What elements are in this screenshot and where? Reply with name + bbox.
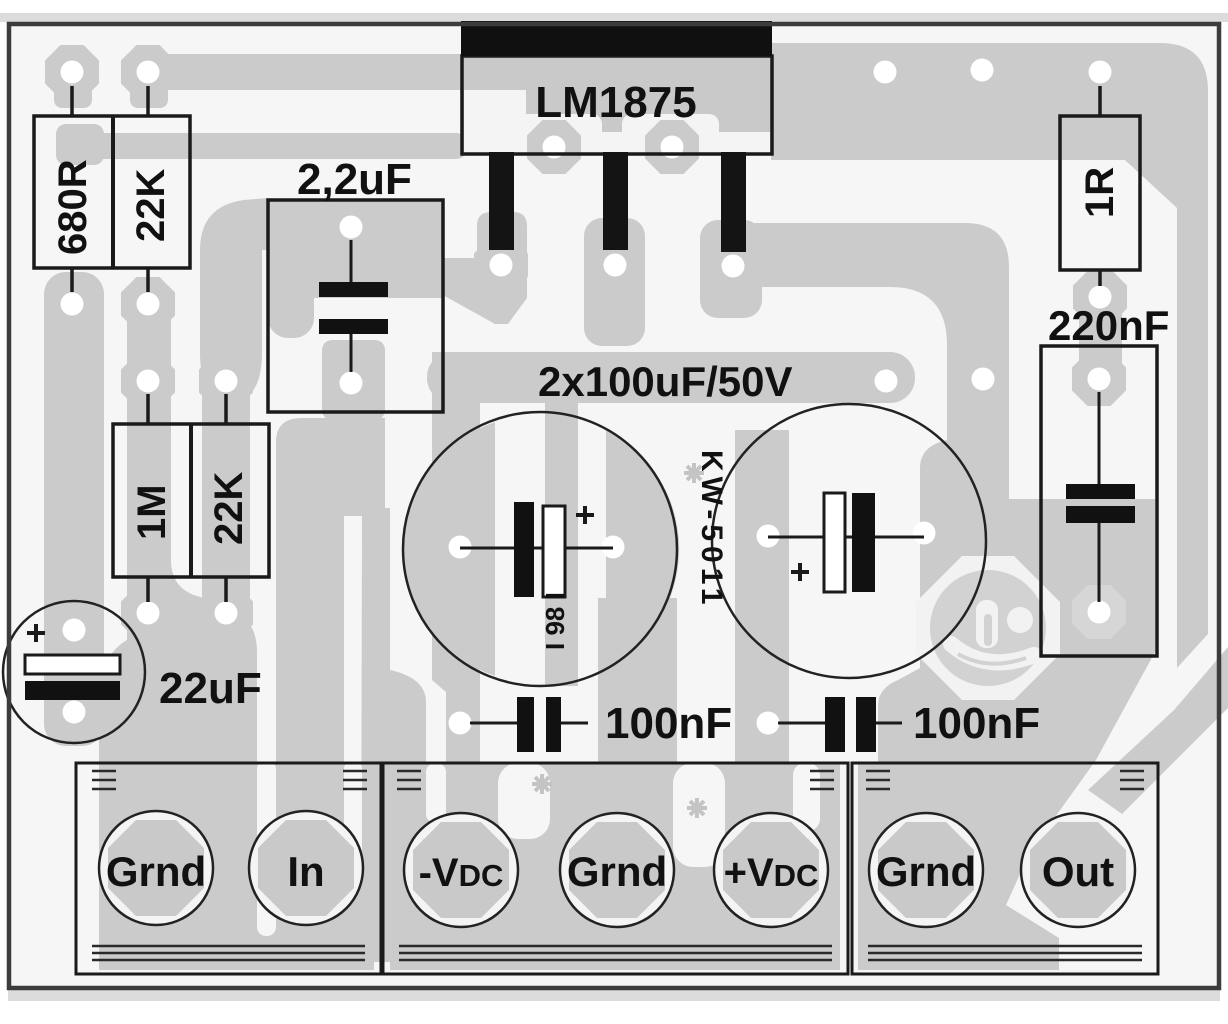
hatch block1 left (92, 771, 116, 789)
wire: slot left of -VDC in block2 (426, 763, 446, 823)
wire: gnd-mid bridge below slot2 (598, 598, 677, 764)
wire: trace C into block2 left corner (361, 508, 426, 962)
wire: +VDC strip (735, 430, 789, 942)
op-amp U1 body fill (462, 56, 772, 154)
wire: band2 left end blob (56, 124, 104, 165)
wire: block2 interior copper (390, 763, 840, 970)
wire: left vertical trace 680R bottom to 22uF (44, 272, 104, 746)
wire: finger of IC pin3 (584, 218, 645, 346)
terminal In (249, 811, 363, 925)
capacitor 100nF-1 leads (470, 722, 517, 725)
svg-text:220nF: 220nF (1048, 302, 1169, 349)
wire: diagonal band to Out (1088, 647, 1228, 814)
capacitor 2.2uF plates (319, 282, 388, 297)
pad cap B minus (913, 522, 936, 545)
op-amp U1 leg pin5 (721, 152, 746, 252)
pad cap A minus (449, 536, 472, 559)
svg-text:100nF: 100nF (913, 699, 1040, 748)
terminal -VDC (404, 813, 518, 927)
hatch block2 right (810, 771, 834, 789)
svg-text:Grnd: Grnd (106, 848, 206, 895)
capacitor 100nF-2 leads (778, 722, 825, 725)
watermark star 2 (532, 774, 552, 794)
capacitor C 220nF box (1041, 346, 1157, 656)
wire stubs resistors (70, 86, 74, 116)
op-amp U1 white pockets (464, 90, 526, 136)
wire: input blob below 2.2uF (276, 418, 385, 516)
capacitor A plus mark (576, 506, 594, 524)
pad 2.2uF top (324, 200, 378, 254)
wire: 22K2 trace through 1M/22K box (202, 381, 250, 613)
capacitor B 100uF circle (712, 404, 986, 678)
terminal circles (99, 811, 1135, 927)
resistor pair 680R/22K box (34, 116, 190, 268)
wire: tail under pad R2 top (130, 70, 168, 108)
svg-text:LM1875: LM1875 (535, 78, 696, 127)
pad IC pin4 (645, 120, 699, 174)
smiley right eye (1007, 607, 1033, 633)
smiley left pupil (984, 614, 992, 646)
wire: slot right block2 (793, 763, 820, 831)
wire: finger of IC pin5 (700, 220, 762, 318)
bottom outside gray strip (8, 990, 1220, 1001)
capacitor A black plate (514, 502, 534, 597)
svg-text:2,2uF: 2,2uF (297, 155, 412, 204)
terminal +VDC (714, 813, 828, 927)
capacitor 2.2uF leads (350, 240, 353, 282)
svg-text:Out: Out (1042, 848, 1114, 895)
svg-text:In: In (287, 848, 324, 895)
capacitor 100nF-2 plates (825, 697, 845, 752)
wire: block1 interior copper (99, 763, 374, 970)
pad 22uF plus (47, 603, 101, 657)
smiley face disc (930, 570, 1046, 686)
capacitor B plus mark (791, 563, 809, 581)
pad IC pin5 (706, 239, 760, 293)
terminal Grnd1 (99, 811, 213, 925)
pad top pour hole3 (1089, 61, 1112, 84)
bottom lines block2 (399, 946, 832, 960)
svg-text:Grnd: Grnd (567, 848, 667, 895)
wire: slot in block1 between Grnd and In (257, 760, 276, 936)
svg-text:2x100uF/50V: 2x100uF/50V (538, 358, 793, 405)
svg-text:22uF: 22uF (159, 664, 262, 713)
top outside gray strip (0, 13, 1228, 22)
pad 2.2uF bottom (324, 356, 378, 410)
svg-text:+VDC: +VDC (724, 851, 819, 895)
pad 1M top (121, 354, 175, 408)
capacitor 22uF plus mark (27, 624, 45, 642)
pad band hole right (972, 368, 995, 391)
capacitor A white plate (543, 506, 565, 597)
pad 100nF-1 left (449, 712, 472, 735)
capacitor 220nF leads (1098, 392, 1101, 484)
wire: smiley pour with diagonal edge (858, 440, 1155, 970)
svg-text:Grnd: Grnd (876, 848, 976, 895)
block hatch marks and bottom lines (92, 771, 1144, 960)
smiley smile (951, 644, 1034, 662)
pad 220nF top (1072, 352, 1126, 406)
pad 22uF minus (47, 685, 101, 739)
wire: cap A right interior region (606, 429, 679, 669)
wire: 2.2uF box interior top pour (268, 201, 442, 298)
wire: pin5 band to right side (720, 223, 1009, 500)
capacitor B black plate (852, 493, 875, 592)
wire: cap A left interior copper (404, 422, 495, 676)
pad 100nF-2 left (757, 712, 780, 735)
pad IC pin3 (588, 238, 642, 292)
bottom lines block1 (92, 946, 365, 960)
pad cap B plus (757, 525, 780, 548)
hatch block2 left (397, 771, 421, 789)
pad 22K bottom (121, 277, 175, 331)
pad 1R bottom (1073, 270, 1127, 324)
op-amp U1 outline (462, 56, 772, 154)
wire: finger of IC pin1 to 2.2uF pour (441, 212, 527, 324)
watermark star 1 (684, 463, 704, 483)
svg-text:100nF: 100nF (605, 699, 732, 748)
smiley left eye (976, 600, 998, 648)
svg-text:I 98 I: I 98 I (540, 592, 570, 650)
svg-text:1M: 1M (130, 484, 174, 540)
wire: second horizontal band y135 (56, 133, 468, 159)
terminal block 2 outline (383, 763, 848, 974)
terminal block 1 outline (76, 763, 381, 974)
capacitor 100nF-1 plates (517, 697, 534, 752)
terminal Grnd2 (560, 813, 674, 927)
pad 680R bottom (45, 277, 99, 331)
wire: tail under pad R1 top (54, 70, 92, 108)
pad 220nF bottom (1072, 585, 1126, 639)
pad IC pin2 (527, 120, 581, 174)
hatch block3 left (866, 771, 890, 789)
watermark star 3 (687, 798, 707, 818)
svg-text:-VDC: -VDC (419, 851, 504, 895)
capacitor A lead line (460, 547, 613, 550)
capacitor B lead line (768, 536, 924, 539)
pad cap A plus (602, 536, 625, 559)
capacitor B white plate (824, 493, 845, 592)
op-amp U1 leg pin1 (489, 152, 514, 250)
hatch block1 right (343, 771, 367, 789)
pad R2 top (121, 45, 175, 99)
wire: slot1 into block2 (498, 763, 550, 839)
terminal Grnd3 (869, 813, 983, 927)
wire: 1R bottom to 220nF link (1079, 290, 1122, 390)
capacitor 220nF plates (1066, 484, 1135, 499)
resistor 1R box (1060, 116, 1140, 270)
wire: elbow from 2.2uF box to 1M/22K top-right pad (200, 198, 268, 401)
pad IC pin1 (474, 238, 528, 292)
svg-text:1R: 1R (1078, 167, 1122, 218)
op-amp U1 leg pin3 (603, 152, 628, 250)
pad 22K2 top (199, 354, 253, 408)
pad band hole left (875, 370, 898, 393)
wire: main pour band with 2x100uF text (427, 352, 915, 403)
wire: 2.2uF pour lower-left tongue (268, 270, 314, 338)
wire: gnd-left trace through 1M box down into block1 (99, 292, 257, 962)
white slots over copper (257, 760, 820, 936)
wire: top band from R-pad row to IC (net pin2) (140, 54, 463, 90)
pad 22K2 bottom (199, 586, 253, 640)
pad top pour hole1 (874, 61, 897, 84)
resistor pair 1M/22K box (113, 424, 269, 577)
wire: 2.2uF bottom pad finger (322, 340, 385, 420)
svg-text:680R: 680R (51, 159, 95, 255)
terminal Out (1021, 813, 1135, 927)
svg-text:22K: 22K (207, 472, 251, 545)
wire: slot right of In (344, 760, 362, 870)
wire: mid strip through cap A (545, 400, 578, 686)
wire: In trace down to block1 (276, 500, 344, 962)
op-amp U1 tab (461, 21, 772, 56)
wire: top-right pour with right edge trace (771, 43, 1208, 668)
hatch block3 right (1120, 771, 1144, 789)
terminal block 3 outline (852, 763, 1158, 974)
pad 1M bottom (121, 586, 175, 640)
wire: -VDC strip (432, 352, 480, 942)
pad R1 top-left (45, 45, 99, 99)
capacitor 22uF white plate (25, 655, 120, 674)
capacitor 22uF black plate (25, 681, 120, 700)
wire: slot mid block2 (673, 763, 725, 867)
capacitor 2.2uF box (268, 200, 443, 412)
capacitor A 100uF circle (403, 412, 677, 686)
pad top pour hole2 (971, 59, 994, 82)
capacitor 22uF circle (3, 601, 145, 743)
smiley pad octagon (916, 556, 1060, 700)
bottom lines block3 (868, 946, 1142, 960)
svg-text:22K: 22K (129, 169, 173, 242)
